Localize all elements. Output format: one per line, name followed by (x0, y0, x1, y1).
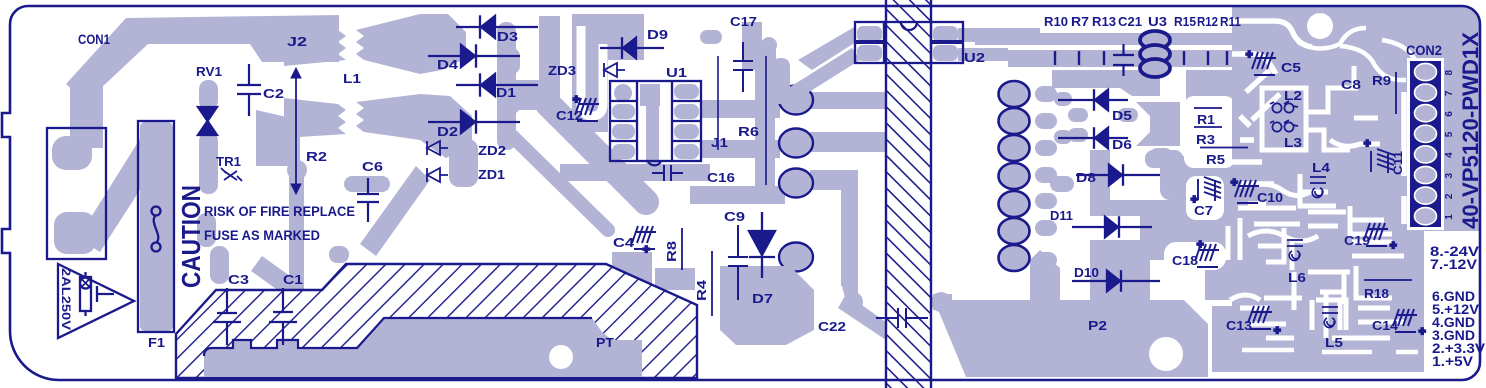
connector P1 ovals (999, 81, 1030, 107)
svg-text:1: 1 (1444, 214, 1455, 220)
resistor R13 symbol (1103, 51, 1105, 65)
optocoupler U2 copper (798, 26, 856, 70)
IC U1 outline (610, 81, 701, 161)
resistor R8 (681, 228, 683, 270)
capacitor C7 symbol (1198, 177, 1221, 201)
wire swath band 1 (548, 104, 646, 202)
resistor R12 symbol (1207, 51, 1209, 65)
svg-text:RISK OF FIRE REPLACE: RISK OF FIRE REPLACE (204, 204, 355, 219)
diode D5 (1095, 90, 1108, 110)
wire C4/R8 nets (596, 252, 652, 290)
svg-text:C17: C17 (730, 14, 757, 29)
svg-text:C3: C3 (228, 272, 249, 287)
resistor R1 (1194, 107, 1222, 109)
svg-text:L6: L6 (1288, 270, 1306, 285)
capacitor C17 (718, 56, 766, 185)
capacitor C11 symbol (1371, 149, 1394, 173)
svg-text:R10: R10 (1044, 14, 1068, 29)
svg-text:ZD1: ZD1 (478, 167, 505, 182)
svg-text:2AL250V: 2AL250V (59, 268, 71, 330)
capacitor C9 (728, 225, 748, 300)
svg-text:+: + (1419, 326, 1425, 338)
diode D2 (461, 111, 475, 133)
svg-text:FUSE AS MARKED: FUSE AS MARKED (204, 228, 320, 243)
capacitor C5 symbol (1252, 52, 1276, 75)
svg-text:ZD3: ZD3 (548, 63, 576, 78)
svg-text:5: 5 (1444, 131, 1455, 137)
resistor R15 symbol (1183, 51, 1185, 65)
svg-text:J2: J2 (287, 34, 307, 49)
diode D4 (461, 45, 475, 67)
svg-text:+: + (643, 244, 649, 256)
svg-text:D9: D9 (647, 27, 668, 42)
fuse F1 (138, 121, 174, 332)
resistor R4 (711, 251, 713, 316)
warning triangle 2AL250V (58, 264, 134, 338)
svg-text:C6: C6 (362, 159, 383, 174)
capacitor C1 (269, 288, 297, 345)
svg-text:3: 3 (1444, 173, 1455, 179)
wire rectifier output traces (539, 16, 560, 86)
svg-text:D11: D11 (1050, 208, 1073, 223)
svg-text:R4: R4 (694, 279, 709, 301)
svg-text:C11: C11 (1391, 151, 1405, 175)
svg-text:R2: R2 (306, 149, 327, 164)
svg-text:D4: D4 (437, 57, 459, 72)
inductor L4 symbol (1310, 177, 1326, 197)
svg-text:R1: R1 (1197, 112, 1215, 127)
svg-text:7: 7 (1444, 90, 1455, 96)
svg-text:L3: L3 (1284, 135, 1302, 150)
svg-text:C13: C13 (1226, 318, 1252, 333)
capacitor C19 symbol (1364, 223, 1388, 246)
svg-text:+: + (1274, 325, 1280, 337)
svg-text:7.-12V: 7.-12V (1430, 257, 1477, 272)
inductor L6 symbol (1287, 240, 1303, 260)
svg-text:D3: D3 (497, 29, 518, 44)
svg-text:R8: R8 (664, 241, 679, 262)
svg-text:C4: C4 (613, 235, 635, 250)
diode D6 (1095, 128, 1108, 148)
inductor L3 symbol (1272, 122, 1281, 131)
svg-text:+: + (1364, 138, 1370, 150)
resistor R7 symbol (1078, 51, 1080, 65)
svg-text:+: + (573, 94, 579, 106)
svg-text:J1: J1 (711, 135, 728, 150)
svg-text:R9: R9 (1372, 73, 1391, 88)
isolation slot hatch bar (886, 0, 931, 388)
fuse F1 copper (140, 122, 173, 331)
svg-text:C10: C10 (1257, 190, 1283, 205)
svg-text:D10: D10 (1074, 265, 1099, 280)
diode D3 (481, 16, 495, 38)
svg-text:R3: R3 (1196, 132, 1215, 147)
svg-text:R7: R7 (1071, 14, 1089, 29)
capacitor C6 (357, 178, 379, 222)
diode D8 (1109, 165, 1122, 185)
svg-text:C5: C5 (1281, 60, 1301, 75)
routing channels (white) (1307, 13, 1333, 39)
svg-text:+: + (1197, 239, 1203, 251)
swath channels (581, 26, 603, 116)
wire fuse-holder pads (54, 212, 96, 254)
svg-text:C8: C8 (1341, 77, 1361, 92)
capacitor C12 symbol (575, 98, 599, 121)
wire U2 to control nets (958, 28, 1040, 42)
capacitor C18 symbol (1195, 244, 1219, 267)
capacitor U1 bypass (652, 165, 683, 181)
diode D7 (749, 231, 775, 255)
svg-text:C18: C18 (1172, 253, 1198, 268)
diode D10 (1107, 271, 1120, 291)
svg-text:C19: C19 (1344, 233, 1370, 248)
svg-text:L1: L1 (343, 71, 361, 86)
svg-text:1.+5V: 1.+5V (1432, 354, 1473, 369)
svg-text:P2: P2 (1088, 318, 1107, 333)
wire diode D5-D10 nets (1052, 70, 1160, 96)
capacitor C4 symbol (632, 226, 656, 249)
svg-text:F1: F1 (148, 335, 165, 350)
svg-text:CAUTION: CAUTION (176, 185, 206, 288)
capacitor C10 symbol (1235, 180, 1259, 203)
resistor R3 (1194, 126, 1222, 128)
zener ZD1 (427, 168, 448, 182)
svg-text:C14: C14 (1372, 318, 1399, 333)
svg-text:R11: R11 (1220, 14, 1241, 29)
diode D11 (1105, 217, 1118, 237)
pads J1 ovals (779, 86, 813, 115)
resistor R9 (1395, 72, 1397, 114)
svg-text:C9: C9 (724, 209, 745, 224)
svg-text:U1: U1 (666, 65, 687, 80)
copper pour PT (204, 318, 642, 377)
svg-text:R15: R15 (1174, 14, 1196, 29)
varistor RV1 copper (199, 80, 218, 110)
svg-text:L2: L2 (1284, 88, 1302, 103)
resistor R11 symbol (1226, 51, 1228, 65)
wire left stubs (210, 246, 229, 284)
svg-text:C2: C2 (263, 86, 284, 101)
varistor RV1 symbol (198, 107, 217, 135)
resistor R18 (1364, 279, 1412, 281)
capacitor C2 (237, 64, 261, 116)
capacitor C14 symbol (1393, 309, 1417, 332)
capacitor C22 (876, 308, 928, 328)
svg-text:6: 6 (1444, 111, 1455, 117)
svg-text:4: 4 (1444, 152, 1455, 158)
zener ZD3 symbol (604, 63, 625, 77)
svg-text:CON1: CON1 (78, 31, 110, 47)
capacitor C13 symbol (1248, 306, 1272, 329)
wire swath band 2 (506, 130, 608, 230)
svg-text:U2: U2 (964, 50, 985, 65)
svg-text:R6: R6 (738, 124, 759, 139)
svg-text:CON2: CON2 (1406, 43, 1442, 58)
fuse holder outline (47, 128, 106, 259)
diode D9 (623, 38, 636, 58)
wire D5/D6 area pads (1054, 92, 1072, 106)
svg-text:+: + (1231, 177, 1237, 189)
wire C22 net (843, 292, 863, 312)
svg-text:D1: D1 (496, 85, 516, 100)
svg-text:U3: U3 (1148, 14, 1167, 29)
copper pour P2 (939, 300, 1208, 377)
capacitor C21 symbol (1113, 44, 1134, 76)
keepout hatched area (mains) (176, 264, 697, 378)
thermistor TR1 symbol (221, 168, 242, 181)
svg-text:+: + (1246, 49, 1252, 61)
svg-text:D5: D5 (1112, 108, 1132, 123)
svg-text:D7: D7 (752, 291, 773, 306)
svg-text:TR1: TR1 (216, 154, 241, 169)
svg-text:C21: C21 (1118, 14, 1142, 29)
svg-text:D6: D6 (1112, 137, 1132, 152)
svg-text:8: 8 (1444, 70, 1455, 76)
svg-text:2: 2 (1444, 193, 1455, 199)
svg-text:R5: R5 (1206, 152, 1225, 167)
wire diode block net (497, 22, 516, 150)
svg-text:ZD2: ZD2 (478, 143, 506, 158)
svg-text:L4: L4 (1312, 160, 1331, 175)
svg-text:D2: D2 (437, 124, 458, 139)
svg-text:PT: PT (596, 335, 614, 350)
svg-text:R13: R13 (1092, 14, 1116, 29)
wire C17/J1 nets (700, 30, 722, 44)
svg-text:D8: D8 (1076, 170, 1096, 185)
svg-text:R12: R12 (1197, 14, 1218, 29)
diode D1 (481, 74, 495, 96)
connector CON2 (1407, 58, 1444, 230)
svg-text:L5: L5 (1325, 335, 1343, 350)
svg-text:RV1: RV1 (196, 64, 222, 79)
transformer J2 windings copper (284, 22, 346, 66)
wire CON1 top trace (66, 15, 339, 102)
svg-text:C1: C1 (283, 272, 303, 287)
svg-text:C12: C12 (556, 108, 583, 123)
wire regulator nets (1186, 70, 1245, 300)
svg-text:R18: R18 (1364, 286, 1389, 301)
svg-text:C7: C7 (1194, 203, 1213, 218)
svg-text:C22: C22 (818, 319, 846, 334)
inductor L5 symbol (1322, 307, 1338, 327)
zener ZD2 (427, 141, 448, 155)
optocoupler U2 outline (855, 22, 963, 63)
resistor R2 symbol (295, 76, 297, 186)
resistor R10 symbol (1054, 51, 1056, 65)
inductor L2 symbol (1272, 103, 1281, 112)
IC U3 pads (1140, 31, 1170, 49)
resistor R5 (1200, 147, 1248, 149)
IC U1 copper pads (614, 84, 632, 102)
svg-text:C16: C16 (707, 170, 735, 185)
svg-text:40-VP5120-PWD1X: 40-VP5120-PWD1X (1458, 32, 1483, 229)
wire R2 net (287, 160, 307, 180)
capacitor C3 (213, 288, 241, 345)
wire ovals to U2 (810, 92, 886, 109)
svg-text:+: + (1390, 240, 1396, 252)
copper pour right section (1232, 6, 1480, 372)
